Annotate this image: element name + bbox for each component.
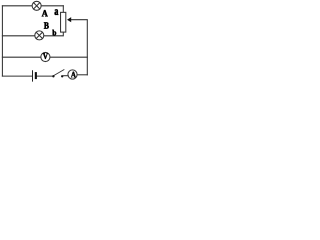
wire wiper to right rail (71, 20, 88, 75)
wire lamp B row to left rail (2, 35, 34, 37)
wire ammeter to right rail (77, 74, 87, 76)
lamp B (35, 31, 44, 40)
wiper arrow head (67, 17, 71, 22)
wire switch to ammeter (64, 75, 69, 77)
voltmeter V1 (41, 52, 50, 61)
switch contact dot right (61, 75, 63, 77)
label a (rheostat top terminal) (55, 9, 59, 15)
wire top row left of lamp A (2, 5, 31, 7)
battery cell short thick plate (35, 72, 37, 79)
wire bottom rail left (2, 75, 32, 77)
wire top row right of lamp A (41, 5, 63, 7)
label V (voltmeter) (43, 53, 48, 59)
label A (lamp A) (42, 10, 48, 16)
switch S lever (53, 70, 64, 76)
label b (rheostat bottom terminal) (52, 30, 56, 36)
label B (lamp B) (44, 22, 49, 28)
label A (ammeter) (71, 72, 76, 78)
wire voltmeter row left (2, 56, 40, 58)
wire left rail (1, 6, 3, 76)
battery cell long plate (32, 70, 34, 81)
rheostat R (slide) (61, 12, 66, 32)
ammeter A1 (68, 70, 77, 79)
lamp A (32, 1, 41, 10)
switch contact dot left (52, 75, 54, 77)
wire stub rheostat bottom (44, 33, 63, 36)
wire voltmeter row right (50, 56, 87, 58)
wire stub to rheostat top (62, 6, 64, 12)
wire battery to switch (37, 75, 52, 77)
